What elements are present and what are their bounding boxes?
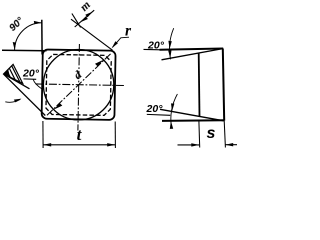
90-degree corner: top edge extended left	[2, 49, 47, 52]
d arrowhead lower-left on circle	[54, 103, 63, 110]
d arrowhead upper-right on circle	[95, 60, 104, 66]
wedge detail (hatched chamfer cross-section)	[4, 64, 23, 83]
inscribed circle	[43, 49, 115, 121]
20deg bottom underline	[147, 113, 170, 116]
top arc arrowhead at slant	[168, 50, 171, 58]
m dimension inner extension line	[72, 14, 81, 28]
square insert outline (rounded corners)	[42, 49, 116, 119]
curved arrow under wedge	[5, 99, 20, 102]
l dimension extension line right	[114, 122, 116, 149]
left inner vertical edge	[198, 53, 201, 117]
svg-text:20°: 20°	[22, 68, 40, 80]
20deg underline	[24, 78, 37, 80]
s extension line left	[198, 121, 201, 148]
m dimension outer extension line	[71, 19, 113, 50]
hidden bottom contour (dashed octagon)	[46, 54, 111, 115]
top arc arrowhead at top edge	[168, 41, 171, 49]
90-arc arrowhead at vertical line	[34, 21, 42, 24]
bottom arc arrowhead at slant	[171, 103, 174, 111]
r leader horizontal tail	[113, 37, 130, 47]
wedge hatching	[7, 66, 20, 82]
s arrowhead left (pointing right)	[191, 143, 199, 146]
leader from wedge tip to square corner	[4, 74, 46, 115]
m dimension line with arrow	[75, 10, 95, 27]
90-degree dimension arc	[15, 23, 42, 50]
90-arc arrowhead at horizontal line	[13, 42, 16, 50]
svg-text:20°: 20°	[147, 39, 165, 51]
bottom arc arrowhead at bottom edge	[170, 121, 173, 129]
s dimension line left part	[178, 144, 200, 146]
m arrowhead SW	[80, 16, 88, 22]
m arrowhead NE	[85, 12, 93, 18]
diagonal centerline (d dimension line)	[47, 52, 111, 116]
s extension line right	[224, 121, 225, 148]
svg-text:s: s	[207, 125, 216, 142]
20deg top underline	[144, 48, 162, 50]
curved arrow head	[14, 99, 22, 103]
bottom slant edge (20deg)	[160, 109, 224, 121]
top slant edge (20deg)	[162, 49, 223, 60]
l arrowhead right	[107, 143, 115, 146]
l arrowhead left	[43, 143, 51, 146]
bottom face edge	[162, 119, 224, 122]
horizontal centerline	[36, 84, 125, 86]
90-degree corner: left edge extended up	[41, 20, 43, 55]
s dimension line right part	[225, 144, 237, 146]
right side edge	[223, 49, 224, 121]
r arrowhead at corner	[112, 41, 118, 48]
wedge tip fill	[4, 69, 10, 76]
svg-text:r: r	[125, 22, 132, 39]
top angle dimension arc	[170, 28, 174, 59]
svg-text:20°: 20°	[146, 103, 164, 115]
vertical centerline	[78, 44, 80, 130]
l dimension line	[43, 144, 115, 146]
s arrowhead right (pointing left)	[225, 143, 233, 146]
top face edge	[160, 49, 224, 50]
leader from underline to square edge	[33, 79, 42, 89]
wedge bottom edge extended	[4, 74, 30, 89]
bottom angle dimension arc	[171, 94, 178, 127]
l dimension extension line left	[42, 121, 44, 148]
